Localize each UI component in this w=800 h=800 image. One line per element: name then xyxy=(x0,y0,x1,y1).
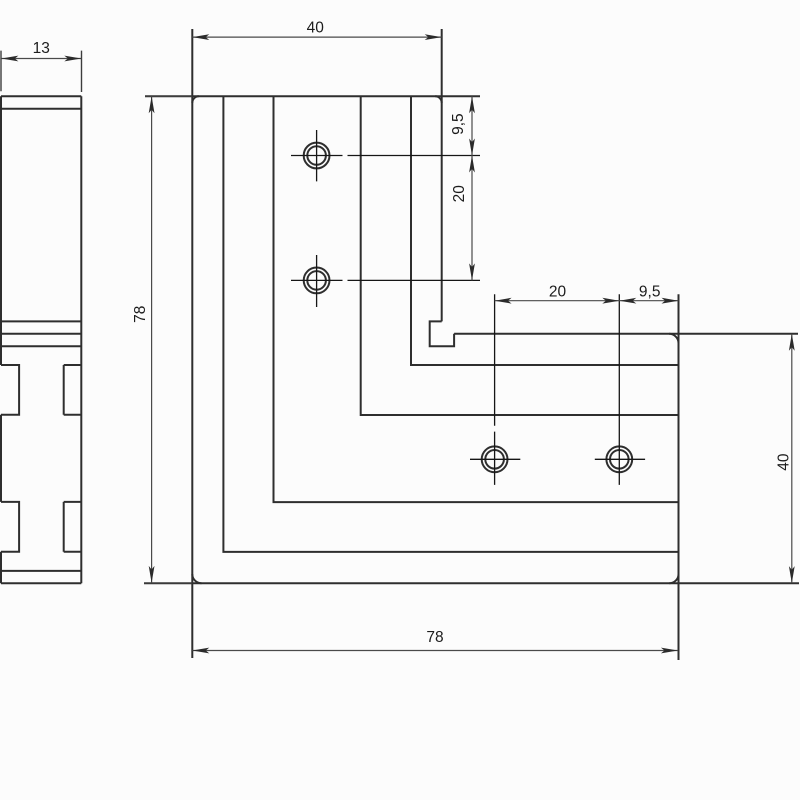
svg-text:9,5: 9,5 xyxy=(639,283,661,300)
side view left edge xyxy=(0,96,2,583)
svg-text:13: 13 xyxy=(33,40,50,57)
svg-text:20: 20 xyxy=(549,283,567,300)
svg-text:9,5: 9,5 xyxy=(450,113,467,135)
svg-text:78: 78 xyxy=(132,306,149,323)
side view upper-right slot xyxy=(64,365,82,415)
side view line notch top xyxy=(1,320,81,322)
dim 20 bottom-leg arrows xyxy=(495,298,620,304)
side view right edge xyxy=(80,96,82,583)
inner contour C 27mm xyxy=(361,96,679,415)
centerline H1 xyxy=(291,130,480,181)
hole H1 xyxy=(304,143,330,169)
dim 9,5 bottom-leg arrows xyxy=(619,298,678,304)
dim 20 bottom-leg line xyxy=(495,300,679,302)
main view right edge with extensions xyxy=(678,294,680,660)
side view lower-right slot xyxy=(64,502,82,552)
centerline H4 xyxy=(595,294,645,485)
main view vertical leg right edge with extension xyxy=(441,29,443,321)
main view left edge with extensions xyxy=(191,29,193,658)
dim 20 right line xyxy=(471,156,473,281)
side view line leg top xyxy=(1,333,81,335)
notch step xyxy=(430,321,454,346)
svg-text:78: 78 xyxy=(426,629,443,646)
inner contour A 5mm xyxy=(223,96,678,552)
svg-text:20: 20 xyxy=(451,185,468,203)
dim 78 left extension lines xyxy=(144,96,192,583)
main view bottom edge with extensions xyxy=(144,582,799,584)
side view upper-left slot xyxy=(1,365,19,415)
hole H4 xyxy=(606,446,632,472)
fillet bottom-left xyxy=(192,574,201,583)
side view line 2mm above bottom xyxy=(1,570,81,572)
fillet bottom-right xyxy=(669,574,678,583)
fillet top-right of leg xyxy=(435,96,442,103)
side view bottom edge xyxy=(1,582,81,584)
fillet top-left xyxy=(192,96,199,103)
svg-text:40: 40 xyxy=(776,453,793,471)
dim 40 right line xyxy=(791,334,793,583)
main view top edge with extensions xyxy=(145,95,480,97)
side view top edge xyxy=(1,95,81,97)
dim 40 top arrows xyxy=(192,34,441,40)
side view line 2mm below top xyxy=(1,108,81,110)
dim 40 top line xyxy=(192,36,441,38)
dim 13 arrows xyxy=(1,56,81,62)
dim 40 right arrows xyxy=(789,334,795,583)
main view horizontal leg top edge with extension xyxy=(454,333,798,335)
centerline H3 xyxy=(470,294,520,485)
dim 78 left line xyxy=(151,96,153,583)
dim 13 line xyxy=(1,58,81,60)
inner contour B 13mm xyxy=(274,96,679,502)
side view line notch bottom xyxy=(1,345,81,347)
hole H2 xyxy=(304,268,330,294)
dim 78 left arrows xyxy=(149,96,155,583)
dim 9,5 right arrows xyxy=(469,96,475,155)
centerline H2 xyxy=(291,255,480,307)
side view lower-left slot xyxy=(1,502,19,552)
dim 9,5 right line xyxy=(471,96,473,155)
dim 78 bottom arrows xyxy=(192,648,678,654)
fillet leg-top right corner xyxy=(669,334,678,343)
dim 20 right arrows xyxy=(469,156,475,281)
inner contour D 35mm xyxy=(411,96,679,365)
dim 78 bottom line xyxy=(192,650,678,652)
dim 13 extension lines xyxy=(1,51,82,92)
hole H3 xyxy=(482,446,508,472)
svg-text:40: 40 xyxy=(307,20,325,37)
